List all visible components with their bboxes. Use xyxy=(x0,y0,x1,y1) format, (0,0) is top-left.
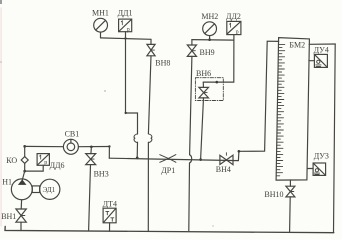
svg-text:ДУ4: ДУ4 xyxy=(314,46,329,55)
node junction on dashed box xyxy=(215,81,218,84)
node junction ДД1/header xyxy=(124,37,126,39)
wire ВН10 drain xyxy=(289,197,292,232)
wire bottom return pipe xyxy=(5,226,334,232)
valve ВН4 xyxy=(220,153,233,165)
indicator СВ1 xyxy=(63,139,78,154)
svg-text:ДТ4: ДТ4 xyxy=(103,199,117,208)
svg-text:КО: КО xyxy=(6,156,17,165)
sensor ДД1 xyxy=(119,19,132,33)
wire ВН6 to main line xyxy=(201,98,204,160)
svg-text:ДД1: ДД1 xyxy=(118,8,133,17)
node corner main line xyxy=(108,145,110,147)
wire ДД2 down xyxy=(203,35,234,83)
union coupling on line A xyxy=(134,134,137,143)
svg-text:р: р xyxy=(44,160,47,166)
wire top header 1 xyxy=(101,38,152,39)
svg-text:р: р xyxy=(127,27,130,33)
wire КО stem lower xyxy=(24,163,26,171)
wire МН1 stem xyxy=(100,32,102,38)
node junction line A / main line xyxy=(136,157,139,160)
wire ВН3 drain xyxy=(89,165,91,231)
pump Н1 xyxy=(11,179,32,200)
wire ВН9 stem xyxy=(191,40,193,45)
wire top header 2 xyxy=(192,39,234,42)
level sensor ДУ4 xyxy=(314,54,327,67)
sensor ДД2 xyxy=(227,21,241,35)
manometer МН1 xyxy=(94,18,108,32)
wire ВН4 to vessel feed xyxy=(238,41,278,160)
motor ЭД1 xyxy=(40,179,60,199)
valve ВН6 xyxy=(199,87,209,98)
svg-text:ЭД1: ЭД1 xyxy=(43,185,56,194)
wire ВН1 drain xyxy=(20,222,22,230)
wire overflow to border xyxy=(309,43,335,45)
wire junction to СВ1 xyxy=(25,145,64,147)
wire to ДУ4 xyxy=(309,60,315,62)
svg-text:ДУ3: ДУ3 xyxy=(314,152,329,161)
valve ВН1 xyxy=(16,209,26,222)
svg-text:МН1: МН1 xyxy=(92,9,109,18)
svg-text:МН2: МН2 xyxy=(201,12,218,21)
manometer МН2 xyxy=(203,22,217,36)
level sensor ДУ3 xyxy=(313,163,326,175)
svg-text:р: р xyxy=(236,29,239,35)
wire КО stem upper xyxy=(24,146,26,156)
svg-text:СВ1: СВ1 xyxy=(65,129,80,138)
union coupling on line B xyxy=(148,134,151,143)
valve ВН9 xyxy=(187,45,196,56)
wire pump outlet xyxy=(20,200,22,209)
wire to ДУ3 xyxy=(308,168,314,170)
svg-text:ВН4: ВН4 xyxy=(216,165,231,174)
svg-text:Н1: Н1 xyxy=(2,177,12,186)
svg-text:ВН8: ВН8 xyxy=(155,59,170,68)
node corner ДД1 drop xyxy=(125,112,127,114)
node junction ДД6 xyxy=(23,170,26,173)
vessel БМ2 xyxy=(276,38,309,181)
wire main measuring line xyxy=(109,158,238,160)
coupling Н1-ЭД1 xyxy=(32,186,39,193)
wire ВН8 drain lower xyxy=(147,142,149,231)
wire ВН3 stem xyxy=(90,147,93,154)
wire ВН10 stem xyxy=(289,180,291,186)
sensor ДТ4 xyxy=(103,208,116,223)
wire ДТ4 stem xyxy=(109,223,111,231)
wire return pipe right xyxy=(334,44,336,233)
wire ВН6 stem xyxy=(202,82,204,87)
wire СВ1 to ВН3 junction xyxy=(78,146,109,148)
svg-text:ВН3: ВН3 xyxy=(94,170,109,179)
valve ВН10 xyxy=(286,186,295,197)
wire ВН9 drain with hop xyxy=(189,56,192,230)
node junction КО branch xyxy=(23,145,26,148)
check valve КО xyxy=(21,157,28,164)
restrictor ДР1 xyxy=(160,155,176,163)
dashed enclosure ВН6 xyxy=(195,78,223,101)
wire to ДД6 xyxy=(25,165,44,171)
svg-text:ВН6: ВН6 xyxy=(196,69,211,78)
node junction МН2/header xyxy=(208,38,211,41)
svg-text:ДД6: ДД6 xyxy=(50,161,65,170)
svg-text:ДД2: ДД2 xyxy=(226,12,241,21)
node junction ВН3 xyxy=(90,145,93,148)
wire line A to main xyxy=(136,142,138,158)
valve ВН8 xyxy=(147,44,155,55)
svg-text:ВН9: ВН9 xyxy=(200,48,215,57)
wire ДД1 down xyxy=(126,32,138,134)
scan edge artifact xyxy=(0,8,2,226)
node corner after ВН4 xyxy=(238,150,241,153)
node junction ВН6/main xyxy=(199,158,202,161)
wire ВН8 drain upper xyxy=(148,56,151,134)
wire corner down xyxy=(108,147,110,159)
wire to pump Н1 xyxy=(22,171,24,180)
svg-text:ДР1: ДР1 xyxy=(161,166,175,175)
scale ruler of БМ2 xyxy=(276,45,285,176)
wire МН2 stem xyxy=(209,36,211,40)
svg-text:ВН1: ВН1 xyxy=(1,212,16,221)
svg-text:БМ2: БМ2 xyxy=(289,40,305,49)
wire header1 corner to ВН8 xyxy=(150,39,152,44)
valve ВН3 xyxy=(86,154,96,165)
svg-text:ВН10: ВН10 xyxy=(264,190,283,199)
sensor ДД6 xyxy=(37,154,49,167)
